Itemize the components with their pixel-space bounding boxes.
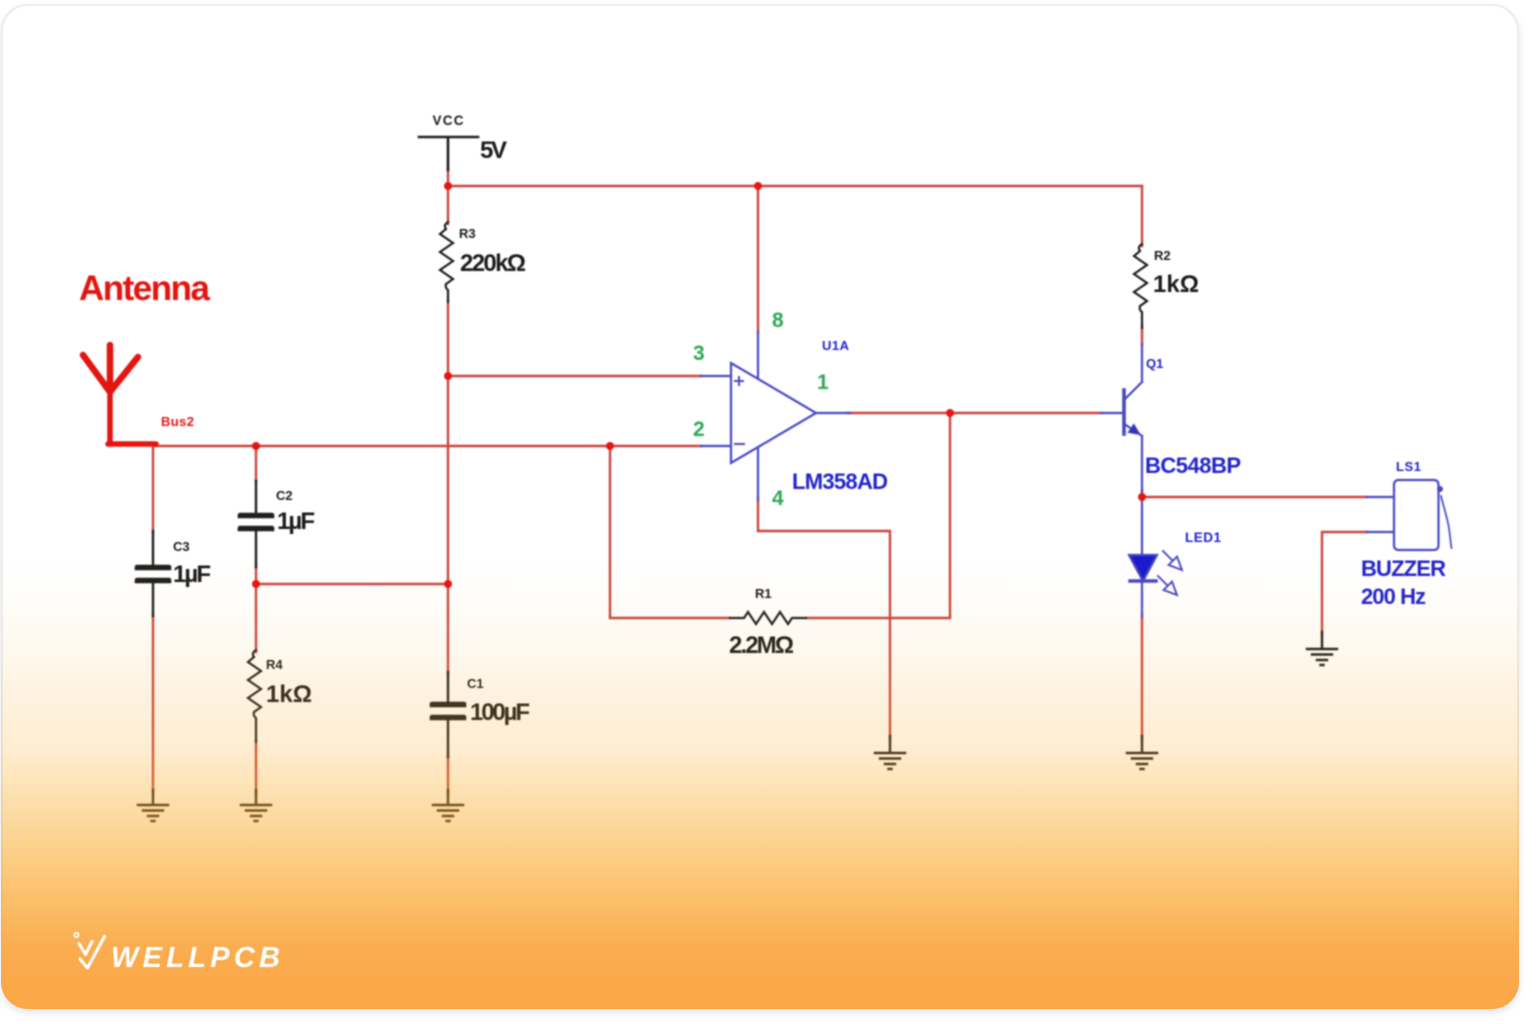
wire op-amp output to base [848, 412, 1101, 414]
wire buzzer return to ground [1322, 532, 1367, 634]
wire R3 top lead to VCC [447, 168, 449, 224]
buzzer LS1 pins [1367, 497, 1394, 532]
op-amp U1 triangle [731, 363, 816, 463]
wire LED to ground [1141, 614, 1143, 739]
wire C1 to ground [447, 755, 449, 792]
transistor Q1 pins [1101, 344, 1142, 492]
wire pin3 net [448, 375, 701, 377]
resistor R1 [730, 612, 806, 624]
resistor R4 [248, 650, 261, 742]
wire Bus2 net [155, 445, 701, 447]
node output [946, 409, 954, 417]
node Bus2-C2 [252, 442, 260, 450]
wire LED junction to buzzer [1142, 496, 1367, 498]
node collector-LED [1138, 493, 1146, 501]
buzzer LS1 box [1394, 480, 1439, 550]
VCC bar symbol [419, 137, 478, 170]
BLUE symbols [701, 332, 1452, 617]
wire C2 to R4 link [256, 446, 448, 652]
transistor Q1 emitter arrow [1128, 424, 1140, 434]
ground buzzer [1307, 632, 1337, 665]
svg-text:WELLPCB: WELLPCB [111, 942, 280, 974]
capacitor C1 [432, 672, 464, 757]
junction dots [252, 182, 1146, 588]
BLACK leads and symbols [137, 137, 1337, 821]
ground C3 [138, 790, 168, 821]
capacitor C3 [137, 531, 169, 616]
node Bus2-feedback [606, 442, 614, 450]
antenna symbol [83, 345, 156, 444]
node R3-pin3 [444, 372, 452, 380]
WIRES-RED [153, 168, 1367, 792]
wire R4 to ground [255, 740, 257, 792]
op-amp plus minus [735, 377, 744, 444]
wire pin8 supply drop [757, 186, 759, 332]
wire inverting feedback drop [610, 446, 729, 618]
node C2-R4 [252, 580, 260, 588]
wire C3 drop [152, 446, 154, 792]
ground op-amp V- [875, 736, 905, 769]
op-amp U1 pin stubs [701, 332, 850, 500]
wire R2 drop [1141, 186, 1143, 344]
wire pin4 down [758, 498, 890, 738]
wire R1 right to output [807, 413, 950, 618]
ground C1 [433, 790, 463, 821]
wire R3 bottom / R3-C1 column [447, 300, 449, 674]
LED LED1 body [1141, 497, 1143, 555]
capacitor C2 [240, 481, 272, 567]
node VCC-pin8 [754, 182, 762, 190]
ground LED [1127, 736, 1157, 769]
wire emitter to LED junction [1141, 490, 1143, 498]
node link-C1 [444, 580, 452, 588]
LED LED1 arrows [1163, 551, 1182, 570]
ground R4 [241, 790, 271, 821]
node VCC-R3 [444, 182, 452, 190]
buzzer LS1 coil mark [1437, 486, 1443, 492]
resistor R3 [440, 222, 453, 302]
resistor R2 [1134, 244, 1147, 328]
transistor Q1 base bar [1122, 390, 1126, 434]
wire VCC rail [448, 185, 1142, 187]
